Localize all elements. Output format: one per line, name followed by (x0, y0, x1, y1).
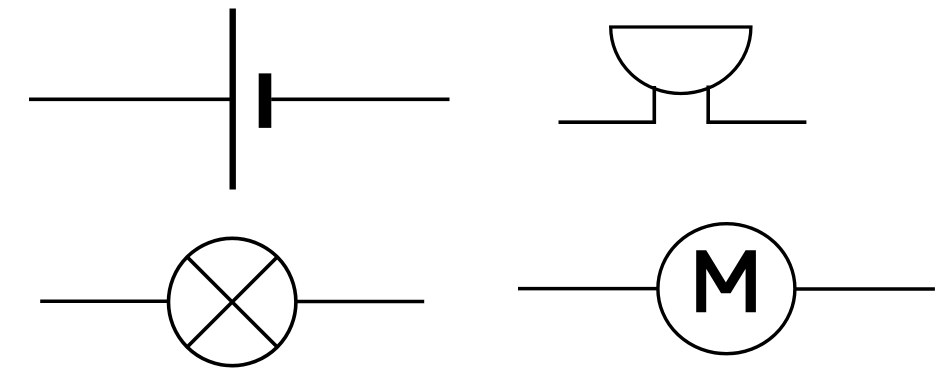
bell LS1: dome (half-ellipse with flat top) (611, 27, 751, 94)
motor M1: right wire (795, 287, 935, 291)
battery cell B1: long positive plate (229, 9, 235, 190)
lamp DS1: cross diagonal 1 (186, 256, 278, 348)
motor M1: circle body (658, 224, 795, 354)
bell LS1: left wire (559, 120, 657, 124)
lamp DS1: left wire (40, 299, 169, 303)
bell LS1: right leg (706, 86, 710, 124)
battery cell B1: right wire (271, 98, 449, 102)
battery cell B1: left wire (29, 98, 231, 102)
lamp DS1: right wire (296, 300, 425, 304)
motor M1: letter M label (696, 250, 756, 312)
lamp DS1: circle (169, 238, 296, 365)
lamp DS1: cross diagonal 2 (186, 256, 278, 348)
battery cell B1: short thick negative plate (259, 73, 272, 128)
bell LS1: right wire (706, 120, 806, 124)
bell LS1: left leg (652, 86, 656, 124)
motor M1: left wire (518, 287, 658, 291)
